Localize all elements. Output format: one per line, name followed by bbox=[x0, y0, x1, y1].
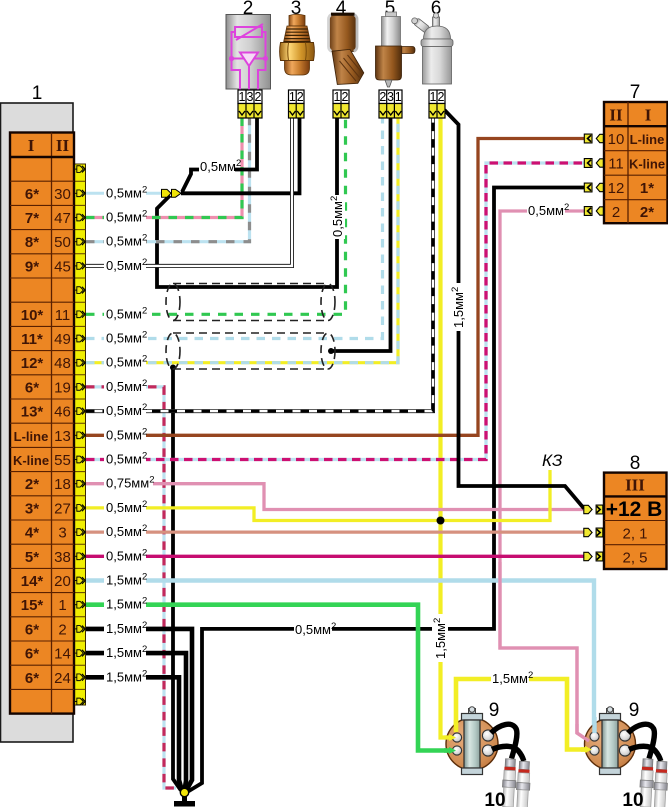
crank sensor pin numbers 2 3 1 bbox=[379, 90, 402, 104]
svg-text:2: 2 bbox=[342, 90, 349, 104]
label 1,5mm2 pin20 bbox=[104, 571, 146, 587]
label 0,5mm2 MAP ground wire bbox=[199, 158, 241, 174]
label 0,5mm2 pin47 bbox=[104, 208, 146, 224]
svg-text:1: 1 bbox=[239, 90, 246, 104]
wire L-line pin13 to connector7 pin10 (brown) bbox=[86, 139, 584, 436]
svg-text:8*: 8* bbox=[25, 234, 39, 251]
svg-text:11: 11 bbox=[608, 156, 624, 173]
svg-text:1,5мм2: 1,5мм2 bbox=[106, 620, 147, 636]
spark plug 2 (item 10) bbox=[515, 761, 531, 807]
svg-text:6*: 6* bbox=[25, 621, 39, 638]
shielded cable tube 1 (outline) bbox=[166, 284, 335, 321]
idle valve pin numbers 1 2 bbox=[429, 90, 445, 104]
svg-text:1,5мм2: 1,5мм2 bbox=[106, 572, 147, 588]
label 1,5mm2 coil yellow wire (rotated) bbox=[432, 614, 448, 662]
label 0,5mm2 pin46 bbox=[104, 402, 146, 418]
wire pin45 to temp sensor pin1 (white) bbox=[86, 116, 292, 266]
svg-text:КЗ: КЗ bbox=[542, 451, 563, 470]
svg-text:9: 9 bbox=[489, 700, 500, 721]
wire overlay yellow stub at coil 1 bbox=[444, 735, 449, 739]
junction dot tube2 left shield bbox=[170, 365, 176, 371]
svg-text:0,5мм2: 0,5мм2 bbox=[295, 621, 336, 637]
svg-text:0,5мм2: 0,5мм2 bbox=[106, 402, 147, 418]
connector 1 pin table bbox=[10, 133, 74, 714]
svg-text:13: 13 bbox=[54, 428, 71, 445]
label 1,5mm2 idle valve black wire (rotated) bbox=[450, 283, 466, 331]
svg-text:20: 20 bbox=[54, 573, 71, 590]
connector 7 pin 12 bbox=[584, 183, 603, 192]
temp sensor terminals bbox=[289, 104, 305, 119]
wire overlay green stub at coil 1 bbox=[444, 748, 449, 753]
svg-text:1,5мм2: 1,5мм2 bbox=[106, 644, 147, 660]
connector 1 pin strip bbox=[74, 164, 86, 705]
svg-text:12: 12 bbox=[608, 180, 625, 197]
phase sensor pin numbers 1 2 bbox=[333, 90, 349, 104]
connector 7 table bbox=[604, 102, 668, 223]
svg-text:1: 1 bbox=[58, 597, 66, 614]
wire gauge labels on ECU rows bbox=[104, 184, 154, 684]
connector 8 table bbox=[604, 473, 667, 569]
svg-text:0,5мм2: 0,5мм2 bbox=[106, 426, 147, 442]
shielded cable tube 1 (fill) bbox=[166, 284, 335, 321]
connector 8 pin 2,5 bbox=[584, 552, 603, 561]
MAP sensor symbol bbox=[232, 24, 266, 90]
wire pin3 to connector8 2,1 (salmon) bbox=[86, 530, 584, 533]
svg-text:0,5мм2: 0,5мм2 bbox=[106, 305, 147, 321]
wire pin2 to ground (black 1.5mm) bbox=[86, 629, 192, 790]
svg-text:I: I bbox=[28, 136, 35, 155]
label 0,5mm2 pin30 bbox=[104, 184, 146, 200]
wire K-line pin55 to connector7 pin11 (magenta/blue) bbox=[86, 163, 584, 460]
ground bolt junction bbox=[180, 788, 188, 796]
svg-text:15*: 15* bbox=[21, 597, 44, 614]
svg-text:0,5мм2: 0,5мм2 bbox=[106, 354, 147, 370]
connector 1 row labels column I bbox=[13, 186, 49, 687]
svg-text:0,5мм2: 0,5мм2 bbox=[106, 184, 147, 200]
svg-text:K-line: K-line bbox=[13, 453, 49, 468]
connector 7 pin 2 bbox=[584, 207, 603, 216]
svg-text:1,5мм2: 1,5мм2 bbox=[492, 670, 533, 686]
svg-text:2*: 2* bbox=[25, 476, 39, 493]
wire overlay yellow drop at coil 1 bbox=[454, 720, 459, 732]
svg-text:0,5мм2: 0,5мм2 bbox=[106, 499, 147, 515]
svg-text:8: 8 bbox=[630, 453, 641, 474]
svg-text:L-line: L-line bbox=[630, 132, 665, 147]
label 0,5mm2 pin3 bbox=[104, 523, 146, 539]
svg-text:2: 2 bbox=[255, 90, 262, 104]
wire pin47 to MAP pin1 (pink/green) bbox=[86, 116, 242, 218]
label 0,5mm2 L-line bbox=[104, 426, 146, 442]
svg-text:+12 В: +12 В bbox=[606, 498, 663, 521]
coil 1 HT lead cylinder 1 bbox=[491, 724, 517, 758]
svg-text:50: 50 bbox=[54, 234, 71, 251]
splice on pin30 wire bbox=[162, 189, 182, 197]
svg-text:0,75мм2: 0,75мм2 bbox=[106, 475, 154, 491]
spark plug 3 (item 10) bbox=[639, 759, 655, 807]
wire coil 1 to coil 2 (yellow 1.5mm) bbox=[456, 679, 585, 750]
label 0,5mm2 pin48 bbox=[104, 353, 146, 369]
svg-text:14*: 14* bbox=[21, 573, 44, 590]
wire splice to phase sensor pin1 via tube 1 (black) bbox=[157, 116, 337, 287]
svg-text:2: 2 bbox=[379, 90, 386, 104]
MAP sensor (item 2) bbox=[226, 0, 271, 118]
svg-text:4*: 4* bbox=[25, 525, 39, 542]
svg-text:49: 49 bbox=[54, 331, 71, 348]
svg-text:5*: 5* bbox=[25, 549, 39, 566]
svg-text:0,5мм2: 0,5мм2 bbox=[106, 209, 147, 225]
wire green taper tip at coil 1 bbox=[449, 747, 456, 754]
label 0,5mm2 pin49 bbox=[104, 329, 146, 345]
idle air valve (item 6) bbox=[412, 0, 453, 118]
svg-text:3: 3 bbox=[58, 525, 66, 542]
label 1,5mm2 pin24 bbox=[104, 668, 146, 684]
svg-text:0,5мм2: 0,5мм2 bbox=[106, 233, 147, 249]
svg-text:7*: 7* bbox=[25, 210, 39, 227]
svg-text:9*: 9* bbox=[25, 258, 39, 275]
coolant temperature sensor (item 3) bbox=[280, 0, 315, 118]
coil 2 HT lead cylinder 4 bbox=[629, 746, 661, 761]
svg-text:1,5мм2: 1,5мм2 bbox=[106, 596, 147, 612]
ground symbol bbox=[182, 796, 187, 801]
MAP sensor pin numbers 1 3 2 bbox=[238, 90, 262, 104]
label 1,5mm2 pin1 bbox=[104, 595, 146, 611]
svg-text:10: 10 bbox=[484, 790, 505, 807]
connector 1 pin chevrons bbox=[75, 166, 86, 173]
svg-text:48: 48 bbox=[54, 355, 71, 372]
svg-text:2: 2 bbox=[297, 90, 304, 104]
wire overlay pink at coil 2 bbox=[577, 724, 589, 741]
crankshaft sensor (item 5) bbox=[376, 0, 416, 118]
crank sensor terminals bbox=[379, 104, 402, 119]
wire overlay yellow stub at coil 2 bbox=[581, 747, 585, 752]
wire pin49 to crank sensor pin2 (blue/white) bbox=[86, 116, 383, 339]
wire connector7 pin2 lower segment (pink over blue) bbox=[500, 562, 589, 741]
wire pin14 to ground (black 1.5mm) bbox=[86, 653, 186, 790]
connector 7 rows bbox=[608, 131, 665, 221]
wire yellow taper tip at coil 1 bbox=[449, 734, 457, 741]
svg-text:24: 24 bbox=[54, 670, 71, 687]
coil 1 HT lead cylinder 2 bbox=[492, 746, 524, 761]
label 0,5mm2 pin38 bbox=[104, 547, 146, 563]
coil 2 terminals bbox=[590, 732, 599, 741]
label 0,5mm2 pin27 bbox=[104, 499, 146, 515]
svg-text:3: 3 bbox=[387, 90, 394, 104]
wire pin1 to coil 1 terminal (green 1.5mm) bbox=[86, 605, 449, 751]
svg-text:6*: 6* bbox=[25, 186, 39, 203]
connector 1 housing bbox=[1, 103, 74, 742]
svg-text:2: 2 bbox=[58, 621, 66, 638]
wire pin24 to ground (black 1.5mm) bbox=[86, 677, 182, 790]
label 0,5mm2 connector7 pin12 ground wire bbox=[294, 621, 336, 637]
label 0,5mm2 K-line bbox=[104, 450, 146, 466]
ignition coil 1 (item 9) bbox=[446, 700, 524, 775]
spark plug 1 (item 10) bbox=[501, 759, 517, 807]
svg-text:0,5мм2: 0,5мм2 bbox=[200, 158, 241, 174]
svg-text:10*: 10* bbox=[21, 307, 44, 324]
svg-text:2: 2 bbox=[612, 204, 620, 221]
svg-text:0,5мм2: 0,5мм2 bbox=[106, 523, 147, 539]
svg-text:3: 3 bbox=[247, 90, 254, 104]
wire tube2 shield drain to ground (black) bbox=[173, 367, 181, 791]
svg-text:1: 1 bbox=[334, 90, 341, 104]
svg-text:9: 9 bbox=[629, 700, 640, 721]
label 0,5mm2 phase sensor black wire (rotated) bbox=[329, 195, 345, 239]
wire pin20 to coil 2 terminal (light blue 1.5mm) bbox=[86, 581, 594, 735]
svg-text:46: 46 bbox=[54, 404, 71, 421]
svg-text:11: 11 bbox=[55, 307, 71, 324]
wire connector7 pin2 to coil 2 terminal (pink 0.5mm) bbox=[500, 211, 589, 741]
wire idle valve pin2 to coil 1 terminal (yellow) bbox=[441, 116, 450, 738]
svg-text:1: 1 bbox=[395, 90, 402, 104]
svg-text:I: I bbox=[645, 106, 652, 125]
svg-text:10: 10 bbox=[608, 131, 625, 148]
wire pin27 to ignition switch KZ (yellow) bbox=[86, 470, 550, 521]
svg-text:18: 18 bbox=[54, 476, 71, 493]
wire pin30 sensor ground (light blue) bbox=[86, 192, 163, 195]
svg-text:1: 1 bbox=[32, 83, 43, 104]
svg-text:III: III bbox=[625, 476, 645, 495]
wire pin46 to idle valve pin1 (black/white) bbox=[86, 116, 433, 411]
svg-text:1,5мм2: 1,5мм2 bbox=[450, 287, 466, 328]
spark plug 4 (item 10) bbox=[653, 761, 668, 807]
label 0,5mm2 pin45 bbox=[104, 257, 146, 273]
ECU connector X1 (item 1) bbox=[1, 83, 86, 742]
phase sensor (item 4) bbox=[329, 0, 364, 118]
connector 8 pin +12V bbox=[584, 505, 603, 514]
svg-text:0,5мм2: 0,5мм2 bbox=[106, 330, 147, 346]
coil 2 HT lead cylinder 3 bbox=[628, 724, 654, 758]
MAP sensor terminals bbox=[238, 104, 262, 119]
diagnostic connector (item 7) bbox=[584, 82, 667, 223]
connector 7 pin 11 bbox=[584, 159, 603, 168]
temp sensor pin numbers 1 2 bbox=[289, 90, 305, 104]
svg-text:3*: 3* bbox=[25, 500, 39, 517]
svg-text:30: 30 bbox=[54, 186, 71, 203]
svg-text:7: 7 bbox=[630, 82, 641, 103]
wire connector7 pin12 to ground (black 0.5mm) bbox=[188, 188, 584, 792]
svg-text:6*: 6* bbox=[25, 670, 39, 687]
svg-text:38: 38 bbox=[54, 549, 71, 566]
wire pin48 to crank sensor pin1 (yellow/blue) bbox=[86, 116, 398, 363]
wire pin38 to connector8 2,5 (crimson) bbox=[86, 555, 584, 558]
svg-text:0,5мм2: 0,5мм2 bbox=[329, 196, 345, 237]
svg-text:II: II bbox=[609, 106, 623, 125]
connector 1 row labels column II bbox=[54, 186, 71, 687]
svg-text:2, 1: 2, 1 bbox=[622, 526, 647, 543]
svg-text:1,5мм2: 1,5мм2 bbox=[106, 668, 147, 684]
label 0,75mm2 pin18 bbox=[104, 474, 153, 490]
wire pin18 to connector8 +12V (pink) bbox=[86, 484, 584, 510]
svg-text:0,5мм2: 0,5мм2 bbox=[106, 378, 147, 394]
connector 7 pin 10 bbox=[584, 134, 603, 143]
svg-text:47: 47 bbox=[54, 210, 71, 227]
coil 1 terminals bbox=[452, 733, 461, 742]
label 0,5mm2 connector7 pin2 wire bbox=[527, 202, 569, 218]
svg-text:1*: 1* bbox=[640, 180, 654, 197]
wire yellow taper tip at coil 2 bbox=[585, 746, 593, 753]
svg-text:13*: 13* bbox=[21, 404, 44, 421]
connector 8 pin 2,1 bbox=[584, 528, 603, 537]
svg-text:11*: 11* bbox=[21, 331, 43, 348]
junction dot tube2 right shield bbox=[328, 348, 334, 354]
phase sensor terminals bbox=[333, 104, 349, 119]
svg-text:1: 1 bbox=[289, 90, 296, 104]
wire pin50 to MAP pin3 (blue/gray) bbox=[86, 116, 250, 242]
svg-text:55: 55 bbox=[54, 452, 71, 469]
svg-text:10: 10 bbox=[622, 790, 643, 807]
wire pin19 to ground (red/blue) bbox=[86, 387, 176, 788]
wire splice to temp sensor pin2 (black) bbox=[181, 116, 300, 193]
svg-text:6*: 6* bbox=[25, 646, 39, 663]
label 0,5mm2 pin19 bbox=[104, 378, 146, 394]
shielded cable tube 2 (outline) bbox=[166, 333, 335, 369]
svg-text:2: 2 bbox=[438, 90, 445, 104]
svg-text:2*: 2* bbox=[640, 204, 654, 221]
wire idle valve pin2 to connector8 +12V (black) bbox=[445, 110, 585, 509]
label 1,5mm2 coil1-coil2 yellow wire bbox=[491, 670, 533, 686]
svg-text:0,5мм2: 0,5мм2 bbox=[528, 202, 569, 218]
svg-text:0,5мм2: 0,5мм2 bbox=[106, 451, 147, 467]
power connector (item 8) bbox=[584, 453, 667, 569]
wire overlay light blue at coil 2 bbox=[592, 717, 596, 733]
wire tube2 shield drain to crank sensor pin3 (black) bbox=[331, 116, 391, 351]
svg-text:1,5мм2: 1,5мм2 bbox=[432, 618, 448, 659]
svg-text:K-line: K-line bbox=[629, 157, 665, 172]
shielded cable tube 2 (fill) bbox=[166, 333, 335, 369]
svg-text:L-line: L-line bbox=[14, 429, 49, 444]
svg-text:2, 5: 2, 5 bbox=[622, 550, 647, 567]
label 1,5mm2 pin14 bbox=[104, 644, 146, 660]
junction dot yellow KZ branch bbox=[437, 517, 445, 525]
label 0,5mm2 pin11 bbox=[104, 305, 146, 321]
svg-text:1: 1 bbox=[430, 90, 437, 104]
svg-text:19: 19 bbox=[54, 379, 71, 396]
svg-text:14: 14 bbox=[54, 646, 71, 663]
svg-text:II: II bbox=[56, 136, 70, 155]
ignition coil 2 (item 9) bbox=[585, 700, 661, 775]
label 1,5mm2 pin2 bbox=[104, 620, 146, 636]
idle valve terminals bbox=[429, 104, 445, 119]
wire splice to MAP sensor pin2 (black) bbox=[182, 116, 257, 192]
svg-text:0,5мм2: 0,5мм2 bbox=[106, 257, 147, 273]
svg-text:27: 27 bbox=[54, 500, 71, 517]
wire pin11 to phase sensor pin2 (green/white) bbox=[86, 116, 346, 314]
svg-text:45: 45 bbox=[54, 258, 71, 275]
svg-text:0,5мм2: 0,5мм2 bbox=[106, 547, 147, 563]
svg-text:6*: 6* bbox=[25, 379, 39, 396]
label 0,5mm2 pin50 bbox=[104, 232, 146, 248]
svg-text:12*: 12* bbox=[21, 355, 44, 372]
